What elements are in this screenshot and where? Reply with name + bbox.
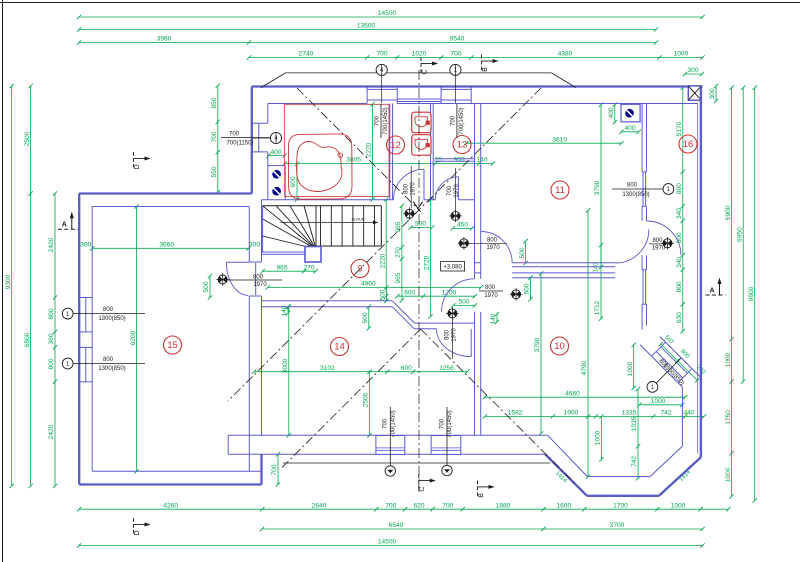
svg-text:965: 965	[395, 221, 402, 232]
svg-text:700: 700	[450, 51, 461, 58]
door label hall	[228, 274, 282, 288]
porch roof line	[283, 462, 550, 464]
label 700/700(1450) room12	[374, 104, 389, 138]
svg-text:700(1450): 700(1450)	[447, 410, 453, 437]
svg-text:A: A	[62, 222, 67, 229]
svg-text:800: 800	[103, 357, 114, 363]
drain symbol 3	[458, 237, 470, 249]
door arc room13	[435, 177, 458, 200]
svg-text:10: 10	[554, 341, 565, 352]
svg-text:700: 700	[271, 464, 278, 475]
svg-text:1335: 1335	[622, 410, 637, 417]
fixture bath a	[273, 170, 281, 178]
section line C	[418, 70, 420, 492]
svg-text:C: C	[422, 69, 429, 74]
roof overhang outline	[261, 73, 576, 88]
svg-text:3700: 3700	[610, 522, 625, 529]
dim 850/700/550	[211, 83, 220, 194]
window block left	[252, 123, 268, 152]
washbasin room11	[621, 104, 640, 122]
dim 500 small	[451, 299, 477, 308]
dim 1000 bay v	[595, 414, 604, 461]
drain symbol 7	[661, 237, 673, 249]
svg-text:270: 270	[395, 247, 402, 258]
svg-text:700(1450): 700(1450)	[459, 107, 465, 134]
door arc room11 left	[481, 232, 513, 264]
svg-text:965: 965	[276, 264, 287, 271]
dim 2220 hall	[379, 197, 388, 298]
svg-text:1300(850): 1300(850)	[622, 192, 649, 198]
dim 2220 bath	[366, 102, 375, 202]
svg-text:700: 700	[439, 418, 445, 429]
door axis room14	[451, 313, 453, 358]
svg-text:500: 500	[380, 289, 387, 300]
svg-text:1000: 1000	[651, 398, 666, 405]
door label room10	[479, 285, 503, 299]
window wing W1	[79, 298, 92, 332]
svg-text:800: 800	[676, 281, 683, 292]
dim 3960/9540 top	[77, 36, 658, 45]
svg-text:5900: 5900	[725, 205, 732, 220]
svg-text:14500: 14500	[378, 10, 397, 17]
section marker C bottom	[419, 474, 436, 492]
door arc room15	[226, 262, 255, 295]
svg-text:450: 450	[457, 222, 468, 229]
dim right 5900/1000/1750/1000	[725, 86, 734, 499]
dim left window column 2420/800/360/800/2420	[48, 191, 57, 488]
sink room12 a	[412, 112, 431, 133]
svg-text:700: 700	[442, 502, 453, 509]
svg-text:1000: 1000	[725, 467, 732, 482]
svg-text:700: 700	[229, 132, 240, 138]
svg-text:1970: 1970	[484, 293, 498, 299]
bathtub drain	[338, 153, 343, 158]
dim 500 c1	[362, 305, 371, 331]
svg-text:1970: 1970	[486, 245, 500, 251]
svg-text:700: 700	[383, 418, 389, 429]
svg-text:3805: 3805	[346, 157, 361, 164]
svg-text:700(1450): 700(1450)	[390, 410, 396, 437]
svg-text:1000: 1000	[627, 361, 634, 376]
svg-text:1600: 1600	[556, 502, 571, 509]
svg-text:4960: 4960	[361, 281, 376, 288]
svg-text:800: 800	[48, 358, 55, 369]
wall wing right outer	[248, 207, 250, 472]
wall bay inner	[548, 387, 683, 477]
dim 4660	[483, 390, 688, 399]
svg-text:2420: 2420	[48, 424, 55, 439]
axis bubble arrow bottom 2	[442, 465, 452, 475]
wall top outer	[252, 85, 703, 87]
label 700/700(1450) porch1	[383, 407, 397, 466]
dim 500 room15 door	[203, 274, 212, 300]
dim 1000 bay top	[637, 398, 684, 407]
svg-text:15: 15	[167, 340, 178, 351]
svg-text:9300: 9300	[5, 274, 12, 289]
svg-text:340: 340	[676, 208, 683, 219]
svg-text:11: 11	[555, 185, 565, 196]
door arc room14	[437, 329, 472, 357]
svg-text:700: 700	[211, 131, 218, 142]
dim 140 r10	[490, 312, 499, 325]
sink room12 b	[412, 135, 431, 156]
porch column 2	[431, 436, 461, 455]
section marker D bottom	[134, 518, 151, 536]
svg-text:6200: 6200	[130, 330, 137, 345]
room label 14	[331, 338, 349, 356]
svg-text:700: 700	[376, 51, 387, 58]
dim 300/3660/300 room15	[80, 242, 260, 251]
svg-text:400: 400	[624, 125, 635, 132]
wall strip diagonal	[640, 337, 701, 388]
svg-text:800: 800	[652, 238, 663, 244]
svg-text:6950: 6950	[736, 227, 743, 242]
svg-text:1000: 1000	[671, 502, 686, 509]
svg-text:800: 800	[487, 237, 498, 243]
section marker A left	[58, 212, 78, 230]
stairs	[263, 206, 382, 249]
svg-text:1970: 1970	[454, 184, 460, 198]
stairs up arrow	[413, 202, 422, 209]
svg-text:360: 360	[48, 333, 55, 344]
bathtub platform	[285, 104, 389, 196]
svg-text:620: 620	[413, 502, 424, 509]
wall corridor south	[262, 301, 475, 329]
svg-text:15: 15	[435, 157, 443, 164]
dim 140 room14	[281, 305, 290, 317]
door label room14	[444, 328, 457, 342]
door label room11R	[649, 238, 666, 252]
svg-text:800: 800	[627, 182, 638, 188]
svg-text:3660: 3660	[159, 242, 174, 249]
drain symbol 6	[217, 273, 229, 285]
svg-text:140: 140	[476, 157, 487, 164]
dim 13500 top	[77, 23, 658, 32]
wall wing top outer	[79, 192, 252, 194]
wall right outer	[698, 87, 701, 458]
dim 1712 room10	[594, 243, 603, 321]
label 700/700(1450) porch2	[439, 407, 453, 465]
door label room13	[447, 168, 460, 211]
dim 3790 room10	[534, 271, 543, 435]
dim 1414 left bay	[554, 470, 568, 484]
dim 300 right top	[709, 84, 718, 103]
svg-text:500: 500	[415, 221, 426, 228]
svg-text:6800: 6800	[24, 332, 31, 347]
svg-text:630: 630	[676, 312, 683, 323]
wall wing top inner	[92, 206, 249, 208]
svg-text:500: 500	[203, 281, 210, 292]
bath niche	[268, 166, 285, 200]
room label 11	[551, 181, 569, 199]
svg-text:500: 500	[458, 299, 469, 306]
door arc strip16	[647, 221, 681, 255]
dim bottom row 4260..1000	[77, 502, 731, 511]
dim 6950 right	[736, 86, 745, 384]
svg-text:500: 500	[362, 312, 369, 323]
svg-text:16: 16	[683, 139, 694, 150]
svg-text:+3,080: +3,080	[443, 265, 462, 271]
bathtub inner	[297, 142, 342, 192]
door label room12	[403, 166, 416, 208]
dim 9300 left	[5, 84, 14, 488]
dim 140 label r11	[594, 262, 600, 273]
wall wing right inner	[249, 200, 261, 435]
section marker B bottom	[478, 480, 495, 497]
svg-text:1970: 1970	[652, 246, 666, 252]
room label 16	[679, 135, 697, 153]
svg-text:3790: 3790	[534, 337, 541, 352]
dim 14500 top	[77, 10, 705, 19]
dim row 2740/700/1020/700/4380/1000	[247, 51, 705, 60]
dim 6200 room15	[130, 204, 139, 473]
dim 965/270 hall	[260, 264, 318, 273]
svg-text:9600: 9600	[748, 286, 755, 301]
section marker B top	[482, 55, 499, 72]
dim 965/270/965	[395, 204, 404, 303]
svg-text:13: 13	[457, 140, 468, 151]
svg-text:500: 500	[519, 247, 526, 258]
roof line B2	[281, 329, 421, 469]
svg-text:1020: 1020	[412, 51, 427, 58]
wall terrace bottom	[262, 453, 545, 455]
dim strip 5170/800/340 column	[676, 86, 685, 334]
axis bubble 1 top	[450, 64, 461, 103]
fixture bath b	[273, 187, 281, 195]
svg-text:1582: 1582	[508, 410, 523, 417]
wall wing bottom outer	[79, 454, 261, 484]
dim 3000 room14	[282, 305, 291, 438]
svg-text:1300(850): 1300(850)	[98, 316, 125, 322]
dim 300 chimney top	[683, 67, 704, 76]
svg-text:2420: 2420	[48, 237, 55, 252]
wall wing bottom inner	[92, 470, 261, 472]
svg-text:850: 850	[211, 97, 218, 108]
wall bath right	[390, 104, 393, 200]
dim 4790 room10	[581, 208, 590, 479]
svg-text:700: 700	[450, 115, 456, 126]
svg-text:700(1150): 700(1150)	[227, 141, 254, 147]
svg-text:1750: 1750	[725, 410, 732, 425]
dim 400 bath	[266, 149, 287, 158]
dim 4960	[266, 281, 484, 290]
wall top inner	[268, 103, 698, 105]
stairs newel post	[305, 247, 321, 263]
dim 1582/1000/1335/742/440	[483, 410, 707, 419]
svg-text:300: 300	[249, 242, 260, 249]
section marker C top	[421, 57, 438, 75]
terrace step left	[228, 435, 262, 454]
svg-text:13500: 13500	[357, 23, 376, 30]
svg-text:550: 550	[211, 166, 218, 177]
svg-text:800: 800	[48, 308, 55, 319]
svg-text:1000: 1000	[595, 430, 602, 445]
svg-text:2640: 2640	[312, 502, 327, 509]
chimney box	[688, 86, 701, 100]
svg-text:300: 300	[709, 88, 716, 99]
label 700/700(1450) room13	[450, 104, 465, 138]
svg-text:1970: 1970	[451, 328, 457, 342]
wall 11/10	[475, 263, 616, 278]
dim 400 r11 niche	[608, 103, 617, 125]
dim 1335/742 bay	[631, 387, 640, 481]
dim 6540/3700 bottom	[260, 522, 705, 531]
window label room11	[612, 182, 674, 198]
dim 500 r10a	[519, 239, 528, 265]
dim 2500 room14	[363, 370, 372, 438]
svg-text:9540: 9540	[450, 36, 465, 43]
door label room11L	[469, 237, 507, 251]
svg-text:440: 440	[683, 410, 694, 417]
svg-text:800: 800	[444, 329, 450, 340]
wall bay outer	[545, 454, 701, 496]
svg-text:1000: 1000	[725, 352, 732, 367]
window strip diagonal	[652, 342, 693, 383]
svg-text:1700: 1700	[613, 502, 628, 509]
svg-text:D: D	[134, 530, 141, 535]
porch column 1	[376, 436, 405, 455]
door room12 leaf	[423, 169, 425, 200]
dim 3805/900/140	[283, 157, 496, 166]
svg-text:14: 14	[334, 342, 345, 353]
axis bubble arrow bottom 1	[385, 466, 395, 476]
svg-text:1970: 1970	[253, 282, 267, 288]
dim 500 r10b	[524, 276, 533, 302]
svg-text:1000: 1000	[674, 51, 689, 58]
svg-text:600: 600	[290, 176, 297, 187]
dim 1000 strip v	[627, 343, 636, 390]
svg-text:1256: 1256	[439, 365, 454, 372]
svg-text:1335: 1335	[631, 416, 638, 431]
dim 600 bath	[290, 162, 299, 202]
roof line A1	[297, 88, 421, 212]
bathtub outer	[288, 134, 352, 199]
svg-text:3102: 3102	[320, 365, 335, 372]
section marker D top	[134, 152, 151, 170]
svg-text:700: 700	[385, 502, 396, 509]
svg-text:3960: 3960	[157, 36, 172, 43]
wall 13 bottom	[434, 159, 474, 162]
svg-text:14500: 14500	[378, 539, 397, 546]
svg-text:800: 800	[485, 285, 496, 291]
svg-text:800: 800	[676, 183, 683, 194]
window top W2	[441, 87, 471, 104]
door room13 leaf	[457, 177, 459, 200]
svg-text:2220: 2220	[379, 253, 386, 268]
svg-text:800: 800	[676, 232, 683, 243]
dim 14500 bottom	[77, 539, 705, 548]
svg-text:600: 600	[404, 289, 415, 296]
svg-text:800: 800	[403, 183, 409, 194]
svg-text:300: 300	[687, 67, 698, 74]
dim 507/800/202 bay diagonal	[659, 335, 707, 383]
svg-text:140: 140	[490, 313, 497, 324]
svg-text:4790: 4790	[581, 360, 588, 375]
window wing W2	[79, 347, 92, 381]
door room14 leaf	[470, 329, 472, 357]
dim 700 porch	[271, 452, 280, 487]
door arc room11 right	[615, 229, 649, 263]
svg-text:700: 700	[447, 185, 453, 196]
wall terrace top	[262, 434, 548, 436]
svg-text:1712: 1712	[594, 300, 601, 315]
svg-text:2500: 2500	[363, 392, 370, 407]
window 11/16 b	[642, 270, 646, 304]
svg-text:700(1450): 700(1450)	[383, 107, 389, 134]
door top 1020	[397, 99, 441, 102]
wall 12/13	[431, 104, 434, 200]
wall under stairs	[262, 206, 308, 255]
svg-text:742: 742	[660, 410, 671, 417]
room label 13	[453, 136, 471, 154]
dim 9600 right	[748, 86, 757, 503]
stairs walk line	[280, 218, 378, 225]
axis bubble 4 top	[376, 64, 387, 103]
dim 600/1200	[395, 289, 477, 298]
svg-text:300: 300	[80, 242, 91, 249]
door arc room10	[442, 279, 475, 312]
level +3,080	[441, 262, 465, 272]
svg-text:3790: 3790	[594, 180, 601, 195]
svg-text:800: 800	[253, 274, 264, 280]
svg-text:1000: 1000	[564, 410, 579, 417]
svg-text:1300(850): 1300(850)	[98, 366, 125, 372]
svg-text:965: 965	[395, 272, 402, 283]
room label 15	[164, 336, 182, 354]
dim 2500/6800 left	[24, 84, 33, 488]
svg-text:800: 800	[103, 307, 114, 313]
svg-text:4260: 4260	[163, 502, 178, 509]
svg-text:A: A	[709, 287, 714, 294]
svg-text:270: 270	[303, 264, 314, 271]
window label wing 2	[62, 357, 145, 372]
svg-text:2740: 2740	[299, 51, 314, 58]
window label wing 1	[62, 307, 145, 322]
svg-text:B: B	[478, 493, 485, 498]
svg-text:2720: 2720	[424, 255, 431, 270]
drain symbol 2	[449, 210, 461, 222]
roof line A2	[228, 88, 541, 401]
wall block left inner	[267, 104, 269, 200]
room label 10	[551, 337, 569, 355]
axis bubble 4 bath	[252, 132, 282, 143]
roof line B1	[421, 329, 575, 483]
svg-text:600: 600	[401, 365, 412, 372]
svg-text:4660: 4660	[565, 390, 580, 397]
drain symbol 4	[446, 307, 458, 319]
dim 3102/600/1256	[252, 365, 470, 374]
wall lobby south	[262, 199, 475, 201]
svg-text:6540: 6540	[389, 522, 404, 529]
svg-text:900: 900	[453, 157, 464, 164]
door arc room12	[394, 169, 425, 200]
window top W1	[367, 87, 397, 104]
dim 2720 hall	[424, 198, 433, 319]
svg-text:400: 400	[608, 107, 615, 118]
svg-text:12: 12	[390, 140, 401, 151]
window 11/16 a	[642, 172, 646, 206]
dim 3610 room11	[464, 136, 624, 145]
svg-text:C: C	[419, 487, 426, 492]
svg-text:340: 340	[676, 257, 683, 268]
svg-text:IN RUN: IN RUN	[351, 218, 364, 222]
wall spine	[475, 104, 481, 436]
svg-text:700: 700	[374, 115, 380, 126]
svg-text:5170: 5170	[676, 121, 683, 136]
wall block left outer	[251, 87, 253, 194]
svg-text:2220: 2220	[366, 142, 373, 157]
svg-text:3000: 3000	[282, 358, 289, 373]
